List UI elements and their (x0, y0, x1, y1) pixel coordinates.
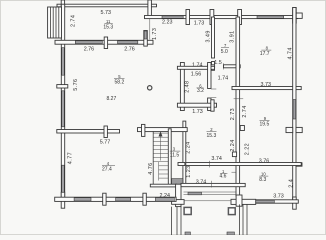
wire room6 right wall upper (208, 63, 211, 89)
svg-text:3.74: 3.74 (196, 180, 207, 186)
node cross x144 bottom (143, 193, 146, 205)
node cross x144 (142, 124, 145, 136)
svg-text:17.7: 17.7 (260, 51, 270, 57)
svg-text:1.73: 1.73 (152, 28, 158, 40)
wire step rail (176, 184, 181, 206)
svg-text:2.76: 2.76 (124, 47, 135, 53)
wire wall rooms8-5 divider y88 (232, 87, 301, 90)
node room3 dark block (172, 179, 183, 186)
svg-text:19.5: 19.5 (260, 122, 270, 128)
wire room6 top wall (177, 66, 214, 69)
svg-text:5.0: 5.0 (221, 49, 228, 55)
node cross x106 on room4 wall (104, 126, 107, 138)
svg-text:3.91: 3.91 (230, 30, 236, 42)
wire room11 bottom wall (55, 40, 153, 44)
resistor entry steps bay (48, 7, 62, 38)
svg-text:5.73: 5.73 (101, 10, 112, 16)
svg-text:8.3: 8.3 (259, 177, 266, 183)
wire room11 right stub (144, 31, 148, 47)
svg-text:2.24: 2.24 (160, 193, 171, 199)
node cross room6 bottom right (211, 100, 214, 111)
wire room6 bottom wall (177, 103, 216, 107)
wire room10 bottom wall (245, 200, 298, 203)
wire room7 bottom wall left piece (208, 65, 215, 68)
wire wall x184 (183, 121, 186, 184)
svg-text:4.6: 4.6 (220, 174, 227, 180)
svg-text:3.73: 3.73 (273, 194, 284, 200)
svg-text:2.74: 2.74 (71, 15, 77, 27)
wire left exterior wall (61, 4, 64, 201)
node bottom-right corner bar (293, 197, 297, 209)
node notch x238 (238, 10, 242, 25)
node stove circle (148, 86, 152, 90)
svg-text:2.24: 2.24 (186, 141, 192, 153)
node notch x186 (186, 10, 190, 25)
svg-text:1.73: 1.73 (194, 20, 205, 26)
node left wall bottom corner bar (61, 192, 64, 208)
wire tick y99 (234, 98, 244, 100)
wire room4 bottom wall (55, 197, 176, 201)
svg-text:1.73: 1.73 (192, 109, 203, 115)
node cross x106 (104, 37, 107, 49)
svg-text:5.77: 5.77 (100, 140, 111, 146)
wire interior wall x238 (236, 17, 240, 196)
wire room2 bottom wall (181, 183, 245, 186)
svg-text:2.23: 2.23 (162, 20, 173, 26)
node arm left y154 (232, 152, 236, 157)
wire top wall left (57, 4, 157, 7)
wire room6 left wall (180, 63, 184, 111)
svg-text:2.74: 2.74 (242, 105, 248, 117)
node top-left corner notch (61, 0, 64, 11)
svg-text:3.2: 3.2 (197, 88, 204, 94)
svg-text:10: 10 (261, 172, 266, 177)
svg-text:1.74: 1.74 (218, 76, 229, 82)
svg-text:1.5: 1.5 (214, 60, 222, 66)
diagram porch right (231, 199, 256, 204)
svg-text:58.2: 58.2 (115, 79, 125, 85)
node top-right corner notch (293, 8, 297, 24)
wire right exterior wall (293, 8, 296, 204)
diagram staircase (152, 131, 154, 184)
node top jog notch (148, 0, 152, 18)
wire interior wall x212 upper (212, 17, 215, 58)
svg-text:2.22: 2.22 (245, 143, 251, 155)
node right wall arm y164 (296, 163, 302, 166)
svg-text:11: 11 (106, 19, 111, 24)
wire interior wall x212 lower (212, 62, 215, 71)
svg-text:1.23: 1.23 (186, 165, 192, 177)
wire room6 right wall lower (208, 98, 211, 111)
node arm right y128 (240, 126, 244, 131)
node arm left of x184 at y164 (178, 163, 185, 166)
svg-text:4.74: 4.74 (287, 47, 293, 59)
wire room6 door marks (211, 88, 216, 90)
node right wall cross y130 (286, 127, 293, 132)
svg-text:2.73: 2.73 (230, 108, 236, 120)
svg-text:4.76: 4.76 (148, 162, 154, 174)
svg-text:8.27: 8.27 (107, 96, 117, 102)
wire jog stub y170 (232, 171, 237, 173)
svg-text:2.76: 2.76 (84, 47, 95, 53)
svg-text:1.56: 1.56 (191, 71, 202, 77)
wire room4 top wall (57, 130, 120, 134)
svg-text:27.4: 27.4 (102, 167, 112, 173)
wire stairs top wall (138, 128, 188, 132)
svg-text:5.76: 5.76 (73, 79, 79, 91)
wire stairs bottom wall (150, 184, 176, 187)
svg-text:1.74: 1.74 (192, 62, 203, 68)
svg-text:15.3: 15.3 (103, 25, 113, 31)
wire wall y164 (185, 163, 301, 166)
wire dim line 1.73 vertical (149, 19, 151, 40)
node notch x210 (210, 10, 214, 25)
svg-text:11.5: 11.5 (170, 152, 180, 158)
node left wall cross y85 (57, 85, 68, 88)
svg-text:4.77: 4.77 (68, 152, 74, 164)
diagram porch mid lines (184, 191, 236, 193)
svg-text:2.4: 2.4 (289, 179, 295, 188)
svg-text:3.74: 3.74 (211, 156, 222, 162)
svg-text:2.48: 2.48 (185, 81, 191, 93)
wire top wall right (145, 16, 298, 19)
node cross x104 bottom (103, 193, 106, 205)
svg-text:2.24: 2.24 (230, 139, 236, 151)
svg-text:3.73: 3.73 (261, 82, 272, 88)
capacitor hatch segments (windows) (162, 16, 183, 18)
diagram porch left (171, 207, 173, 235)
svg-text:15.3: 15.3 (207, 133, 217, 139)
wire room7 bottom wall right piece (224, 65, 241, 68)
svg-text:3.76: 3.76 (259, 158, 270, 164)
svg-text:3.49: 3.49 (205, 30, 211, 42)
